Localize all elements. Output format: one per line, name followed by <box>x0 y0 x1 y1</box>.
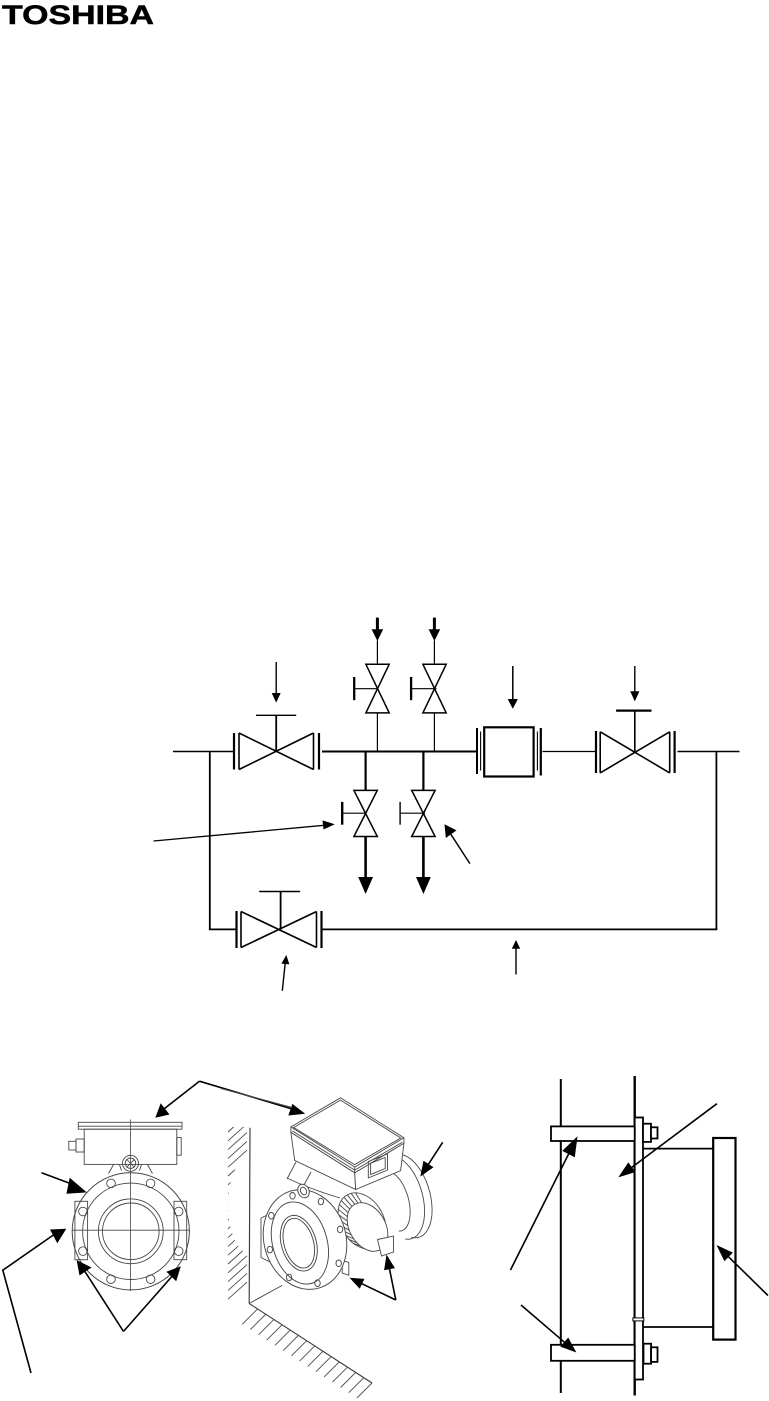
neck bracket <box>109 1165 153 1174</box>
pipe: bypass bottom line left of valve C <box>209 928 237 930</box>
terminal box 3D lid <box>291 1098 404 1167</box>
lid rim <box>291 1127 404 1173</box>
bent leader arrow to flange left edge <box>3 1229 67 1373</box>
arrow above flowmeter <box>508 666 518 709</box>
neck lines under box <box>287 1162 383 1185</box>
front flange 3D <box>252 1180 359 1300</box>
drain valve DV2 <box>400 752 435 837</box>
flow arrow into AV1 <box>372 618 384 641</box>
TOSHIBA logo <box>2 0 154 30</box>
rear flange hub arc <box>386 1171 410 1231</box>
leader arrows: bottom V to lugs <box>77 1260 181 1331</box>
wall clearance notch <box>228 1155 276 1255</box>
box window <box>368 1154 387 1178</box>
air vent valve AV1 <box>354 641 389 752</box>
gate valve V2 (downstream) <box>596 711 675 773</box>
drum ribs <box>338 1193 362 1246</box>
pipe flange plate left <box>560 1079 562 1393</box>
leader arrow to flange joint <box>618 1104 717 1178</box>
air vent valve AV2 <box>411 641 446 752</box>
pipe: left bypass drop <box>209 752 211 930</box>
rear flange face arc <box>384 1156 425 1240</box>
bottom nut <box>644 1344 652 1364</box>
drain arrow DV2 <box>416 837 431 895</box>
leader arrow to flange top-left <box>42 1173 87 1194</box>
arrow above valve V1 <box>272 662 281 703</box>
box body faces <box>291 1132 356 1189</box>
flange strip bottom step <box>633 1318 644 1321</box>
wall hatch top cover <box>220 1100 256 1127</box>
leader arrow to DV1 <box>154 820 335 841</box>
top nut <box>643 1124 651 1142</box>
bolt holes <box>146 1179 155 1188</box>
svg-text:TOSHIBA: TOSHIBA <box>2 0 154 30</box>
converter terminal box (front view) <box>84 1129 177 1164</box>
meter far flange <box>713 1138 735 1340</box>
flowmeter FM <box>477 727 541 776</box>
top bolt <box>551 1126 635 1141</box>
rear flange outer rim arc <box>392 1154 433 1238</box>
small foot tab <box>342 1260 349 1275</box>
leader arrow to DV2 <box>445 824 470 863</box>
floor hatching <box>242 1309 372 1398</box>
meter 3D body group <box>261 1098 432 1264</box>
left mounting bracket <box>261 1213 273 1264</box>
wall edge <box>248 1128 251 1304</box>
centerline horizontal <box>72 1229 190 1231</box>
meter body bottom line <box>643 1326 713 1328</box>
leader arrows: converter pointer V <box>155 1081 305 1118</box>
floor edge <box>249 1304 372 1384</box>
side lug left <box>75 1201 88 1259</box>
arrow below bypass line <box>512 940 520 975</box>
right support bracket <box>378 1236 394 1256</box>
side lug right <box>174 1201 187 1259</box>
meter body top line <box>643 1148 713 1150</box>
flange bolt holes <box>290 1193 295 1200</box>
leader arrow to rear flange <box>420 1142 442 1176</box>
gate valve V1 (upstream) <box>234 715 319 769</box>
barrel top silhouette <box>287 1178 340 1198</box>
flange outer circle <box>72 1173 189 1290</box>
converter terminal box lid (front view) <box>78 1122 182 1129</box>
lifting eyelet <box>296 1182 312 1199</box>
box right tab <box>177 1138 181 1156</box>
unit base silhouette line <box>250 1286 282 1304</box>
leader arrow to far flange <box>717 1245 769 1296</box>
wall hatching <box>228 1115 247 1299</box>
leader arrow to top bolt <box>511 1136 578 1270</box>
bore circles <box>98 1199 163 1264</box>
flange face circle <box>83 1183 179 1279</box>
pipe: flowmeter to valve B <box>543 751 597 753</box>
drum face <box>339 1195 396 1258</box>
flow arrow into AV2 <box>429 618 441 641</box>
meter near flange strip <box>635 1118 643 1380</box>
leader arrow to bottom bolt <box>521 1305 576 1353</box>
pipe flange plate right <box>634 1076 636 1396</box>
bypass gate valve V3 <box>237 892 322 949</box>
leader arrows: bottom V to feet <box>350 1255 396 1301</box>
bottom bolt <box>551 1345 635 1361</box>
coil drum band <box>328 1184 395 1257</box>
pipe: right outlet stub <box>678 751 740 753</box>
drain arrow DV1 <box>358 837 373 895</box>
arrow below valve V3 <box>281 955 289 991</box>
pipe: bypass bottom line right of valve C <box>322 928 718 930</box>
arrow above valve V2 <box>630 666 639 701</box>
pipe: left inlet stub <box>173 751 234 753</box>
wall top edge <box>221 1089 292 1108</box>
pipe: main line valve A to flowmeter <box>322 751 477 753</box>
drain valve DV1 <box>342 752 378 837</box>
cable gland left <box>69 1141 76 1150</box>
swivel joint circles <box>123 1155 139 1171</box>
pipe: right bypass drop <box>715 752 717 930</box>
centerline vertical <box>130 1120 132 1292</box>
